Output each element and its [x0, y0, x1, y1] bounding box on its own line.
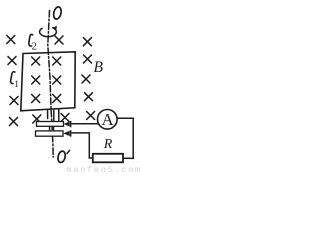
svg-text:A: A — [102, 110, 114, 129]
svg-text:1: 1 — [14, 80, 19, 90]
svg-text:R: R — [103, 137, 113, 152]
node O' (axis bottom label) — [57, 150, 66, 163]
resistor R (box) — [93, 154, 123, 163]
wire: resistor left lead, up to brush 2 — [72, 133, 93, 158]
wire: bottom right to resistor — [123, 157, 133, 159]
brush 1 (top, on ring 1) — [64, 121, 70, 126]
wire: link between rings — [50, 127, 54, 131]
slip ring 1 (top bar) — [37, 122, 64, 127]
field cross row A — [7, 36, 92, 46]
field cross row B — [8, 55, 92, 65]
svg-text:manfen5.com: manfen5.com — [67, 165, 142, 175]
wire: ammeter to right side down — [117, 118, 133, 158]
label l1 (left coil side length) — [11, 72, 15, 84]
field cross row E (below coil) — [10, 112, 95, 126]
wire rotation axis OO' (dashed) — [48, 11, 53, 158]
svg-text:B: B — [94, 59, 104, 76]
svg-text:2: 2 — [32, 41, 37, 52]
field cross row C — [32, 75, 90, 84]
rotation direction arrow (ellipse with arrowhead) — [40, 28, 57, 37]
field cross row D — [10, 93, 93, 105]
coil (rectangular loop) — [21, 52, 75, 111]
brush 2 (bottom, on ring 2) — [63, 131, 69, 136]
node O (axis top label) — [52, 6, 62, 20]
wire: brush 1 to ammeter — [72, 123, 98, 125]
label l2 (top coil side length) — [29, 34, 33, 46]
wire: coil leads down to slip rings — [48, 109, 59, 121]
ammeter A — [98, 110, 118, 130]
slip ring 2 (bottom bar) — [36, 131, 64, 136]
